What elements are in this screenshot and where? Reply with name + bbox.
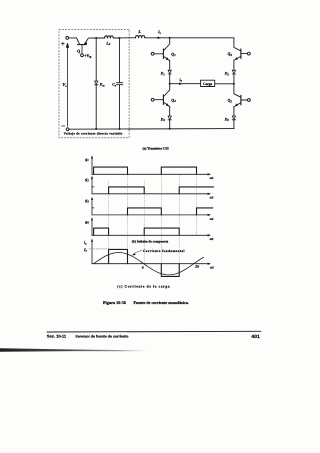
label g3 xyxy=(84,198,89,204)
svg-text:Q: Q xyxy=(77,48,81,53)
wire: D2 to bottom rail corner xyxy=(233,120,235,129)
node: Q1 base terminal xyxy=(151,52,154,55)
wire: top rail right corner down xyxy=(234,38,241,51)
inductor Ld xyxy=(105,36,114,38)
transistor Q1 xyxy=(154,38,170,61)
node B: right mid junction xyxy=(233,83,235,85)
node: Q2 base terminal xyxy=(248,99,251,102)
wire: mid node to load xyxy=(170,83,201,85)
label g1 xyxy=(84,156,89,162)
label Is level xyxy=(83,247,88,253)
svg-text:g2: g2 xyxy=(84,177,89,183)
node junction Ce top xyxy=(118,37,120,39)
svg-text:2π: 2π xyxy=(194,264,200,268)
emitter arrow Q2 xyxy=(235,103,238,106)
diode D3 xyxy=(232,70,235,74)
svg-text:g1: g1 xyxy=(84,156,89,162)
wire: D3 to right mid node xyxy=(233,74,235,84)
g4 axis arrowheads xyxy=(91,217,211,236)
waveform g4 gate pulses xyxy=(94,228,180,235)
label g4 xyxy=(84,219,89,225)
svg-text:ωt: ωt xyxy=(210,265,215,269)
current arrow Is on top rail xyxy=(158,37,162,40)
wire: D1 to mid node xyxy=(169,74,171,84)
label pi xyxy=(142,266,145,270)
caption (b) Senales de compuerta xyxy=(132,239,169,243)
waveform g2 axes xyxy=(92,178,208,194)
wire top: + terminal to transistor Q xyxy=(69,38,80,45)
wire: load to right mid node xyxy=(215,83,234,85)
emitter arrow Q1 xyxy=(166,57,169,60)
svg-text:D1: D1 xyxy=(160,72,166,77)
label Q3 xyxy=(228,51,233,57)
label Q2 xyxy=(228,98,233,104)
capacitor Ce branch wire xyxy=(119,38,121,83)
load box Carga xyxy=(201,80,215,86)
wire: out of dashed box to inductor L xyxy=(120,37,136,39)
diode Dm xyxy=(95,81,99,85)
svg-text:ωt: ωt xyxy=(210,176,215,180)
caption: Voltaje de corriente directa variable xyxy=(64,132,123,136)
g1 axis arrowheads xyxy=(91,155,211,175)
footer running head xyxy=(47,334,260,340)
fundamental current sine xyxy=(94,253,204,275)
node: Q3 base terminal xyxy=(248,52,251,55)
label wt row4 xyxy=(210,237,215,241)
transistor Q (series pass transistor) xyxy=(78,44,87,46)
transistor Q4 xyxy=(154,84,170,107)
wire: bottom rail xyxy=(69,128,234,131)
svg-text:Q2: Q2 xyxy=(228,98,233,104)
dashed Is level line xyxy=(89,248,109,250)
diode D2 xyxy=(232,116,235,120)
transistor Q3 xyxy=(234,49,248,60)
waveform g4 axes xyxy=(92,219,208,235)
label Vs xyxy=(62,82,67,88)
svg-text:io: io xyxy=(84,240,87,246)
svg-text:D4: D4 xyxy=(160,117,166,122)
emitter arrow Q3 xyxy=(235,57,238,60)
svg-text:Corriente fundamental: Corriente fundamental xyxy=(143,249,185,253)
label Q4 xyxy=(171,97,176,103)
wire: Q4 emitter to D4 xyxy=(169,107,171,117)
svg-text:Q1: Q1 xyxy=(171,51,176,57)
waveform g1 axes xyxy=(92,158,208,175)
node: - output terminal xyxy=(66,128,69,131)
svg-text:g3: g3 xyxy=(84,198,89,204)
svg-text:Fuente de corriente monofásica: Fuente de corriente monofásica. xyxy=(134,300,189,305)
label Corriente fundamental with pointer arrow xyxy=(143,249,185,253)
diode D1 xyxy=(168,70,171,74)
svg-text:Sec. 10-11: Sec. 10-11 xyxy=(47,334,67,339)
svg-text:Carga: Carga xyxy=(203,82,212,86)
label Q1 xyxy=(171,51,176,57)
label Ld xyxy=(105,41,110,46)
label D4 xyxy=(160,117,166,122)
capacitor Ce xyxy=(116,83,122,85)
svg-text:Is: Is xyxy=(157,30,162,35)
source Vs arrow xyxy=(66,43,68,126)
wire: Ce to bottom rail xyxy=(119,85,121,129)
diode Dm branch wire xyxy=(95,38,97,81)
g3 axis arrowheads xyxy=(91,197,211,216)
svg-text:D2: D2 xyxy=(224,117,230,122)
label g2 xyxy=(84,177,89,183)
wire: inductor L to bridge top rail xyxy=(145,37,234,39)
dashed timing grid lines xyxy=(109,175,197,264)
wire: junction to inductor Ld xyxy=(96,37,104,39)
caption (c) Corriente de la carga xyxy=(117,285,170,289)
current arrow io xyxy=(179,82,183,85)
load current axis arrowheads xyxy=(91,238,211,265)
wire: inductor Ld to Ce node xyxy=(113,37,119,39)
label Dm xyxy=(99,83,106,88)
svg-text:401: 401 xyxy=(251,334,260,340)
load current square pulses xyxy=(109,249,180,276)
svg-text:(a) Transistor CSI: (a) Transistor CSI xyxy=(143,146,170,150)
svg-text:Ld: Ld xyxy=(105,41,110,46)
label io xyxy=(84,240,87,246)
diode D4 xyxy=(168,116,171,120)
node: Q4 base terminal xyxy=(151,98,154,101)
label D3 xyxy=(224,72,230,77)
emitter arrow of Q xyxy=(85,42,88,45)
label Is xyxy=(157,30,162,35)
svg-text:Inversor de fuente de corrient: Inversor de fuente de corriente xyxy=(76,335,129,339)
caption (a) Transistor CSI xyxy=(143,146,170,150)
svg-text:ωt: ωt xyxy=(210,196,215,200)
wire: D4 to bottom rail xyxy=(169,120,171,129)
svg-text:Voltaje de corriente directa v: Voltaje de corriente directa variable xyxy=(64,132,123,136)
pointer arrow to sine xyxy=(133,251,142,255)
waveform g3 axes xyxy=(92,199,208,215)
label +VB xyxy=(84,53,91,59)
footer rule xyxy=(47,330,261,333)
svg-text:π: π xyxy=(142,266,145,270)
svg-text:(b) Señales de compuerta: (b) Señales de compuerta xyxy=(132,239,169,243)
label D1 xyxy=(160,72,166,77)
node: Ce bottom junction xyxy=(118,128,120,130)
svg-text:Q3: Q3 xyxy=(228,51,233,57)
label wt row5 xyxy=(210,265,215,269)
label - minus xyxy=(62,125,65,127)
svg-text:Figura 10-36: Figura 10-36 xyxy=(103,300,126,305)
scan artifact thick line bottom left xyxy=(0,348,150,352)
svg-text:ωt: ωt xyxy=(210,237,215,241)
svg-text:ωt: ωt xyxy=(210,217,215,221)
svg-text:+VB: +VB xyxy=(84,53,91,59)
load current axes xyxy=(92,241,208,264)
label wt row3 xyxy=(210,217,215,221)
wire: Q1 emitter to D1 xyxy=(169,61,171,71)
svg-text:io: io xyxy=(180,78,183,83)
label L xyxy=(137,29,141,34)
waveform g3 gate pulses xyxy=(128,208,213,215)
node: left leg bottom junction xyxy=(169,128,171,130)
node junction on top wire xyxy=(95,37,97,39)
label io xyxy=(180,78,183,83)
label D2 xyxy=(224,117,230,122)
figure caption xyxy=(103,300,189,305)
node: top rail / left leg junction xyxy=(169,37,171,39)
svg-text:g4: g4 xyxy=(84,219,89,225)
node A: left mid junction xyxy=(169,83,171,85)
g2 axis arrowheads xyxy=(91,176,211,195)
waveform g2 gate pulses xyxy=(109,187,214,194)
svg-text:Vs: Vs xyxy=(62,82,67,88)
wire: Dm to bottom rail xyxy=(95,85,97,129)
svg-text:L: L xyxy=(137,29,141,34)
svg-text:Q4: Q4 xyxy=(171,97,176,103)
node: + input terminal xyxy=(66,37,69,40)
label 2pi xyxy=(194,264,200,268)
transistor Q2 xyxy=(234,84,248,107)
label Ce xyxy=(112,83,117,88)
emitter arrow Q4 xyxy=(166,103,169,106)
svg-text:D3: D3 xyxy=(224,72,230,77)
label wt row2 xyxy=(210,196,215,200)
wire: Q3 emitter to D3 xyxy=(233,60,235,70)
wire: Q2 emitter to D2 xyxy=(233,107,235,116)
svg-text:Is: Is xyxy=(83,247,88,253)
inductor L xyxy=(136,36,145,38)
svg-text:(c) Corriente de la carga: (c) Corriente de la carga xyxy=(117,285,170,289)
label wt row1 xyxy=(210,176,215,180)
waveform g1 gate pulses xyxy=(94,167,197,174)
node: base terminal +VB xyxy=(81,54,84,57)
svg-text:Dm: Dm xyxy=(99,83,106,88)
base lead of Q xyxy=(81,45,83,54)
label Carga xyxy=(203,82,212,86)
dashed box: variable DC voltage source enclosure xyxy=(59,29,129,137)
label Q xyxy=(77,48,81,53)
node: Dm bottom junction xyxy=(95,128,97,130)
label + xyxy=(61,42,64,45)
